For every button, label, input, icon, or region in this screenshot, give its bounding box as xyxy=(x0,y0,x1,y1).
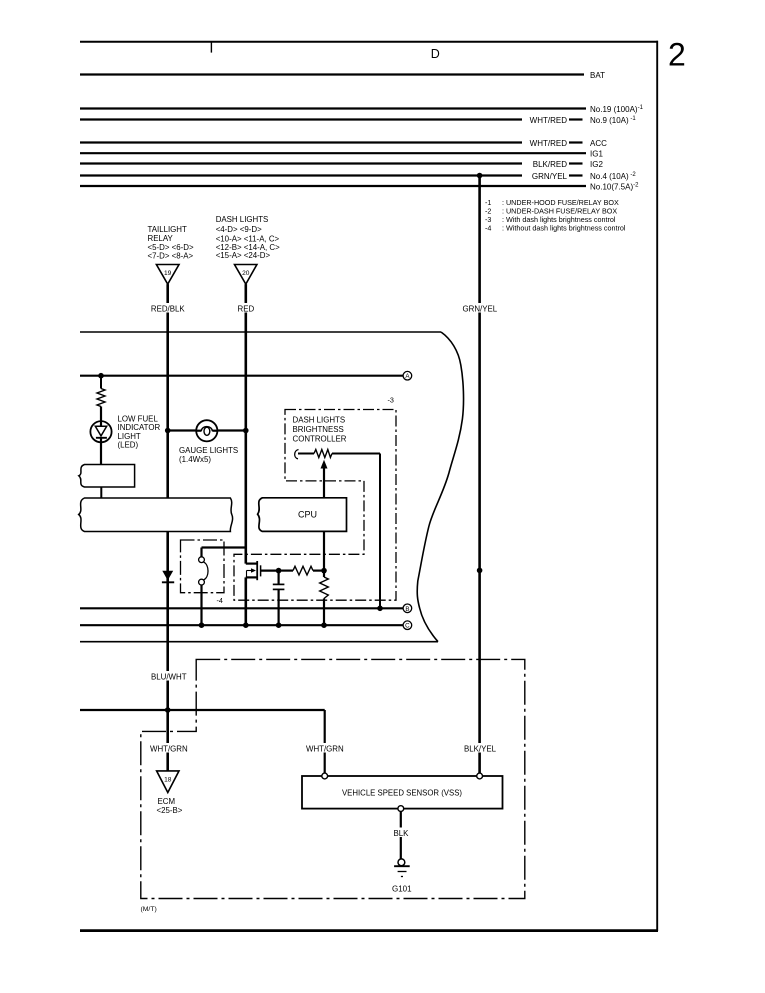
junction dot on A xyxy=(98,373,104,379)
wire WHT/RED No.9 xyxy=(80,118,522,120)
svg-text:DASH LIGHTS: DASH LIGHTS xyxy=(216,215,269,224)
svg-text:<10-A> <11-A, C>: <10-A> <11-A, C> xyxy=(216,234,280,243)
svg-text:DASH LIGHTS: DASH LIGHTS xyxy=(293,416,346,425)
svg-text:No.19 (100A)-1: No.19 (100A)-1 xyxy=(590,105,644,114)
label RED xyxy=(237,303,257,313)
resistor horizontal xyxy=(279,569,293,571)
label BLK/YEL xyxy=(463,743,497,753)
wire CPU to node xyxy=(323,531,325,570)
svg-text:INDICATOR: INDICATOR xyxy=(118,423,161,432)
svg-text:18: 18 xyxy=(164,777,172,784)
svg-text:RED/BLK: RED/BLK xyxy=(151,304,186,313)
svg-text:<4-D> <9-D>: <4-D> <9-D> xyxy=(216,225,262,234)
CPU box xyxy=(258,498,347,532)
frame top border xyxy=(80,41,658,43)
wire WHT/RED ACC xyxy=(80,141,522,143)
wire to VSS xyxy=(80,709,325,711)
svg-text:B: B xyxy=(405,606,409,613)
svg-text:<7-D> <8-A>: <7-D> <8-A> xyxy=(148,252,194,261)
diode xyxy=(166,532,169,771)
svg-text:WHT/RED: WHT/RED xyxy=(530,116,568,125)
bus wire A xyxy=(80,375,403,377)
wire RED from connector 20 xyxy=(245,284,248,563)
svg-text:BRIGHTNESS: BRIGHTNESS xyxy=(293,425,344,434)
label WHT/GRN right xyxy=(305,743,344,753)
svg-text:GAUGE LIGHTS: GAUGE LIGHTS xyxy=(179,446,238,455)
wire No.10 xyxy=(80,185,586,187)
potentiometer (brightness controller) xyxy=(295,450,299,459)
dash-dot box M/T xyxy=(141,659,525,898)
label BLU/WHT xyxy=(150,671,189,681)
resistor (low fuel) xyxy=(100,376,102,389)
potentiometer wiper arrow xyxy=(323,466,325,498)
grid tick on top border xyxy=(210,42,212,53)
svg-text:GRN/YEL: GRN/YEL xyxy=(463,304,498,313)
svg-text:BLK: BLK xyxy=(394,829,410,838)
gauge assembly torn right edge xyxy=(417,332,463,642)
svg-text:BLK/YEL: BLK/YEL xyxy=(464,744,497,753)
svg-text:(M/T): (M/T) xyxy=(141,906,157,913)
gauge lights bulb xyxy=(196,420,217,441)
node B xyxy=(403,604,412,613)
svg-text:IG1: IG1 xyxy=(590,150,603,159)
svg-text:20: 20 xyxy=(242,270,250,277)
label GRN/YEL xyxy=(462,303,500,313)
svg-text:IG2: IG2 xyxy=(590,160,603,169)
svg-text:RELAY: RELAY xyxy=(148,234,174,243)
svg-text:BLU/WHT: BLU/WHT xyxy=(151,672,187,681)
label BLK xyxy=(392,828,411,838)
junction on GRN/YEL wire xyxy=(477,568,483,574)
connector triangle 20 xyxy=(235,265,257,285)
connector triangle 18 (ECM) xyxy=(157,771,179,793)
svg-text:WHT/GRN: WHT/GRN xyxy=(150,744,188,753)
wire RED/BLK from connector 19 xyxy=(166,284,169,498)
wire GRN/YEL No.4 xyxy=(80,174,522,176)
svg-text:CONTROLLER: CONTROLLER xyxy=(293,435,347,444)
VSS terminals xyxy=(322,773,328,779)
VSS box xyxy=(302,776,503,809)
gauge lights feed wire xyxy=(168,429,246,431)
switch wire from RED wire xyxy=(202,546,246,548)
svg-text:GRN/YEL: GRN/YEL xyxy=(532,172,568,181)
frame bottom border xyxy=(80,929,658,932)
svg-text:C: C xyxy=(405,623,410,630)
wire No.19 xyxy=(80,107,586,109)
junction node xyxy=(321,568,327,574)
resistor vertical xyxy=(323,571,325,577)
svg-text:No.10(7.5A)-2: No.10(7.5A)-2 xyxy=(590,182,639,191)
gauge assembly outline top edge xyxy=(80,331,441,333)
svg-text:WHT/GRN: WHT/GRN xyxy=(306,744,344,753)
svg-text:BAT: BAT xyxy=(590,71,605,80)
dash-dot box -3 (brightness controller variant) xyxy=(234,410,396,601)
svg-text:-4: -4 xyxy=(217,596,223,605)
svg-text:LIGHT: LIGHT xyxy=(118,432,141,441)
transistor Q (FET) xyxy=(246,562,257,564)
torn connector box 2 xyxy=(79,498,233,532)
svg-text:: Without dash lights brightne: : Without dash lights brightness control xyxy=(502,224,626,233)
junctions on C xyxy=(199,622,205,628)
switch contacts xyxy=(199,557,205,563)
svg-text:<25-B>: <25-B> xyxy=(157,806,183,815)
svg-text:BLK/RED: BLK/RED xyxy=(533,160,567,169)
gauge assembly outline bottom edge xyxy=(80,641,438,643)
svg-text:D: D xyxy=(431,47,440,61)
junction on No.4 wire xyxy=(477,173,483,179)
svg-text:CPU: CPU xyxy=(298,510,317,520)
wire GRN/YEL vertical xyxy=(478,176,481,777)
svg-text:19: 19 xyxy=(164,270,172,277)
wire BAT xyxy=(80,73,584,75)
connector triangle 19 xyxy=(156,265,179,285)
wire RED lower segment xyxy=(245,577,248,625)
label RED/BLK xyxy=(150,303,188,313)
dashed box -4 (switch variant) xyxy=(181,540,225,593)
label WHT/GRN left xyxy=(149,743,188,753)
junction node gate xyxy=(276,568,282,574)
svg-text:<15-A> <24-D>: <15-A> <24-D> xyxy=(216,251,271,260)
frame right border xyxy=(656,41,658,931)
svg-text:2: 2 xyxy=(668,37,686,73)
junction on B xyxy=(377,606,383,612)
svg-text:(LED): (LED) xyxy=(118,441,139,450)
capacitor C xyxy=(278,571,280,584)
wire BLK to ground xyxy=(400,812,402,860)
svg-text:<5-D> <6-D>: <5-D> <6-D> xyxy=(148,243,194,252)
wire between torn boxes xyxy=(100,487,102,498)
svg-text:TAILLIGHT: TAILLIGHT xyxy=(148,225,187,234)
svg-text:ACC: ACC xyxy=(590,139,607,148)
svg-text:(1.4Wx5): (1.4Wx5) xyxy=(179,455,211,464)
LED low fuel indicator xyxy=(90,421,111,442)
svg-text:LOW FUEL: LOW FUEL xyxy=(118,414,159,423)
wire IG1 xyxy=(80,152,586,154)
svg-text:ECM: ECM xyxy=(158,797,176,806)
svg-text:RED: RED xyxy=(238,304,255,313)
bus wire C xyxy=(80,624,403,626)
wire BLK/RED IG2 xyxy=(80,162,522,164)
svg-text:-4: -4 xyxy=(485,224,491,233)
ground G101 xyxy=(398,859,405,866)
bus wire B xyxy=(80,607,403,609)
torn connector box 1 xyxy=(79,465,135,488)
svg-text:G101: G101 xyxy=(392,885,412,894)
node C xyxy=(403,621,412,630)
svg-text:-3: -3 xyxy=(388,396,394,405)
svg-text:WHT/RED: WHT/RED xyxy=(530,139,568,148)
svg-text:VEHICLE SPEED SENSOR (VSS): VEHICLE SPEED SENSOR (VSS) xyxy=(342,788,462,797)
node A xyxy=(403,371,412,380)
